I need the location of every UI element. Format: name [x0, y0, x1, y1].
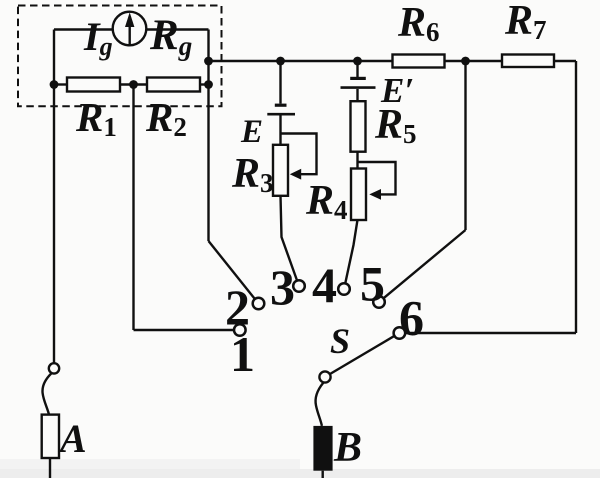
switch S blade: [330, 336, 394, 374]
resistor R5: [351, 101, 366, 152]
galvanometer circle: [113, 12, 147, 46]
contact 6: [394, 327, 406, 339]
node at dashed box exit: [204, 57, 213, 66]
wire R4 bottom lead: [345, 220, 357, 283]
wire between R6 and R7: [445, 60, 503, 62]
galvanometer needle arrowhead: [125, 12, 134, 27]
node right of R2: [204, 80, 213, 89]
wire right side vertical: [575, 61, 577, 333]
battery E short plate: [275, 104, 287, 107]
wire right vertical of dashed box down to bend: [207, 30, 209, 242]
wire curved lead from S pivot to B: [316, 383, 324, 426]
wire top main bus from dashed box to R6: [209, 60, 393, 62]
wire curved lead from contact to A: [42, 373, 51, 415]
switch contact above A: [49, 363, 59, 373]
wire R1-R2 middle leads: [120, 83, 148, 85]
wire below A: [49, 458, 51, 478]
wire R3 bottom lead: [281, 196, 298, 281]
wire diagonal to contact 5: [384, 230, 466, 298]
bottom photo-edge gray band: [0, 469, 600, 478]
battery E' short plate: [350, 77, 366, 80]
wire diagonal to contact 2: [209, 241, 255, 299]
resistor R7: [502, 55, 554, 68]
wire battery E' to R5: [356, 89, 358, 102]
resistor R3: [273, 145, 288, 196]
wire galvanometer right lead: [147, 28, 209, 30]
svg-text:3: 3: [270, 259, 295, 315]
node at battery E' branch: [353, 57, 362, 66]
component A (outline box): [42, 415, 59, 458]
battery E long plate: [267, 113, 295, 116]
battery E' long plate: [341, 86, 376, 89]
wire from R7 to right edge corner: [554, 60, 576, 62]
wire left vertical from galvanometer to switch contact above A: [53, 30, 55, 364]
galvanometer needle shaft: [128, 23, 130, 45]
wire bottom right horizontal to contact 6: [405, 332, 576, 334]
node between R6 and R7: [461, 57, 470, 66]
wire from R6-R7 node down: [464, 61, 466, 230]
wire R2 right lead: [200, 83, 209, 85]
svg-text:4: 4: [312, 257, 337, 313]
contact 5: [373, 296, 385, 308]
wire node to battery E: [279, 61, 281, 104]
arrowhead of R4 wiper: [369, 189, 381, 200]
contact 4: [338, 283, 350, 295]
svg-text:5: 5: [360, 256, 385, 312]
node at battery E branch: [276, 57, 285, 66]
svg-text:E: E: [240, 114, 263, 150]
component B (solid box): [313, 426, 332, 471]
svg-text:A: A: [57, 416, 87, 461]
node left of R1: [50, 80, 59, 89]
wire R1 left lead: [54, 83, 68, 85]
wire below B: [322, 471, 324, 478]
svg-text:2: 2: [225, 279, 250, 335]
resistor R1: [67, 78, 120, 92]
resistor R2: [147, 78, 200, 92]
resistor R4: [351, 169, 366, 221]
contact 3: [293, 280, 305, 292]
wire R4 wiper bracket: [358, 162, 396, 194]
svg-text:S: S: [330, 321, 350, 361]
resistor R6: [393, 55, 445, 68]
wire R3 wiper bracket: [281, 134, 317, 175]
wire galvanometer left lead: [54, 28, 113, 30]
wire horizontal to contact 1: [134, 329, 234, 331]
dashed enclosure box around galvanometer unit: [18, 6, 222, 107]
switch S pivot contact: [319, 371, 330, 382]
svg-text:6: 6: [399, 290, 424, 346]
contact 2: [253, 298, 265, 310]
wire battery E to R3: [279, 116, 281, 146]
wire R5 to R4: [356, 151, 358, 169]
node between R1 and R2: [129, 80, 138, 89]
wire node to battery E': [356, 61, 358, 77]
contact 1: [234, 324, 246, 336]
svg-text:B: B: [333, 425, 362, 471]
wire middle vertical from R1-R2 node: [132, 85, 134, 331]
arrowhead of R3 wiper: [290, 169, 301, 180]
